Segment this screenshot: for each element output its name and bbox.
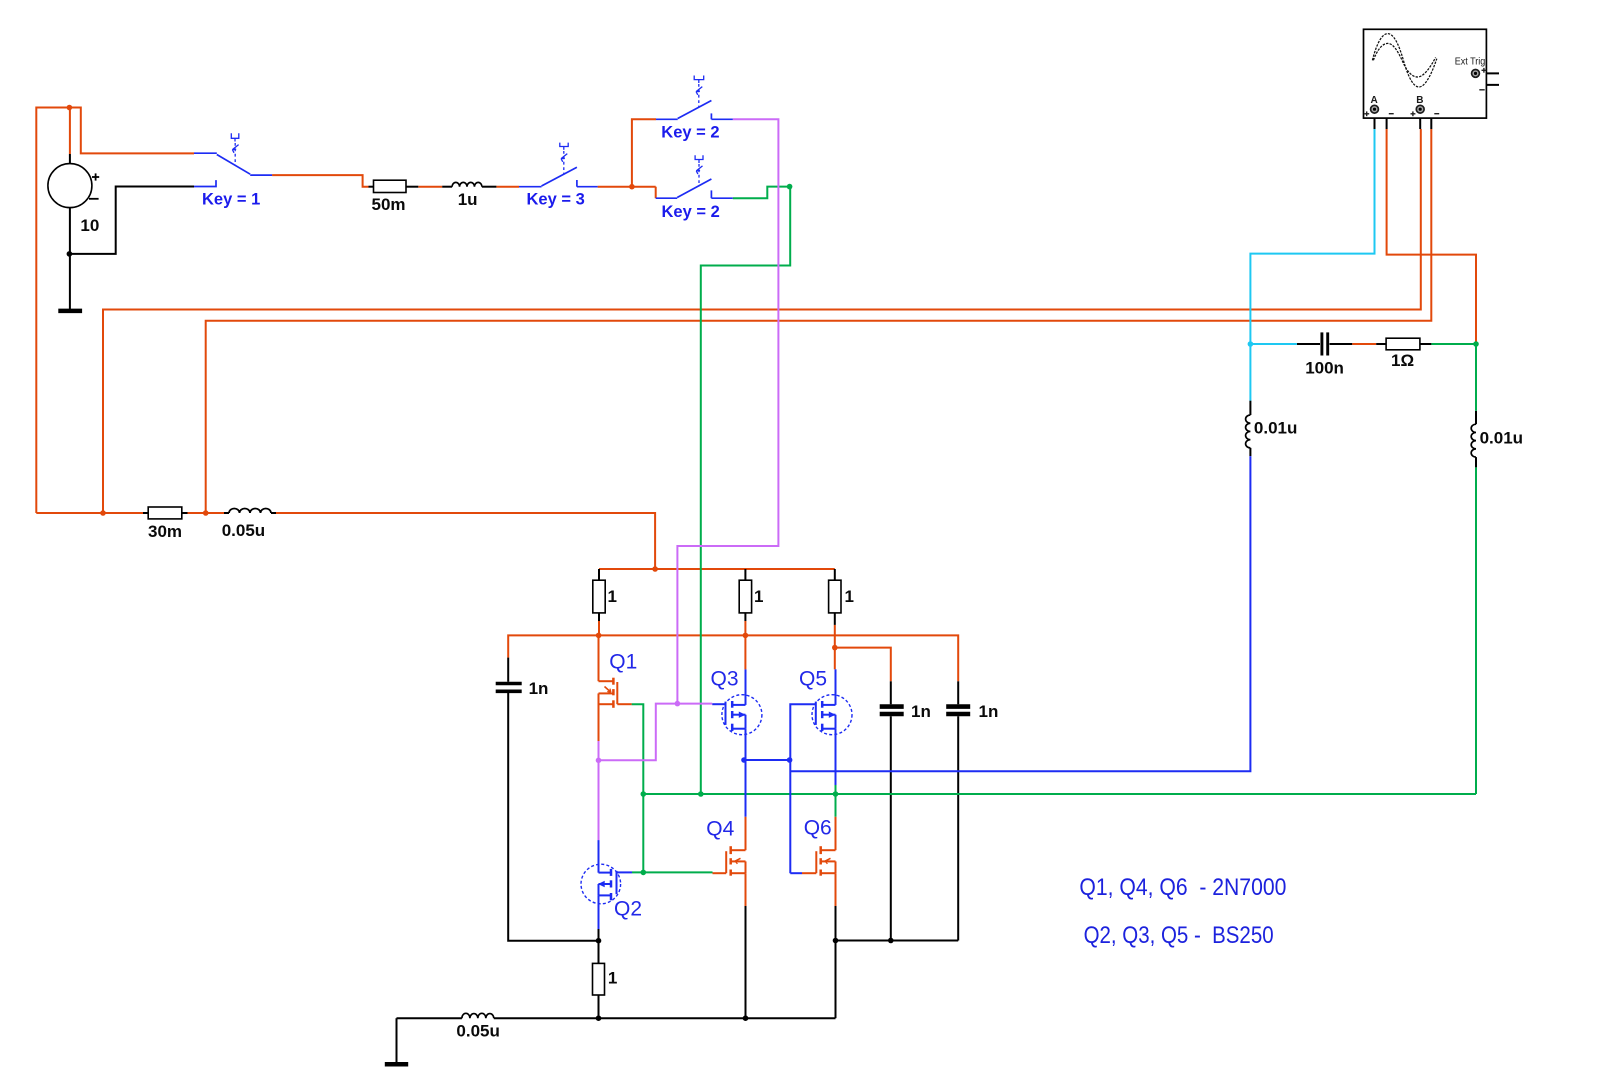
svg-text:10: 10 <box>80 216 99 235</box>
svg-text:A: A <box>1371 95 1378 106</box>
svg-text:1u: 1u <box>458 190 478 209</box>
svg-text:1: 1 <box>754 587 763 606</box>
svg-text:Key = 1: Key = 1 <box>202 191 260 209</box>
svg-text:30m: 30m <box>148 522 182 541</box>
svg-text:0.05u: 0.05u <box>222 521 265 540</box>
svg-text:1Ω: 1Ω <box>1391 351 1414 370</box>
svg-text:0.05u: 0.05u <box>456 1022 499 1041</box>
svg-text:Ext Trig: Ext Trig <box>1455 57 1486 68</box>
svg-text:Key = 2: Key = 2 <box>661 124 719 142</box>
svg-text:1n: 1n <box>979 702 999 721</box>
svg-text:50m: 50m <box>372 195 406 214</box>
svg-text:0.01u: 0.01u <box>1254 418 1297 437</box>
svg-text:Q1: Q1 <box>609 651 637 674</box>
svg-text:Key = 2: Key = 2 <box>662 203 720 221</box>
svg-text:Q1, Q4, Q6 - 2N7000: Q1, Q4, Q6 - 2N7000 <box>1079 874 1286 901</box>
svg-text:Q2: Q2 <box>614 898 642 921</box>
svg-text:1: 1 <box>845 587 854 606</box>
svg-text:Key = 3: Key = 3 <box>527 191 585 209</box>
svg-text:Q6: Q6 <box>804 817 832 840</box>
svg-text:B: B <box>1416 95 1423 106</box>
svg-text:Q2, Q3, Q5 - BS250: Q2, Q3, Q5 - BS250 <box>1084 922 1274 949</box>
svg-text:100n: 100n <box>1305 359 1344 378</box>
svg-text:Q4: Q4 <box>706 818 734 841</box>
svg-text:Q5: Q5 <box>799 667 827 690</box>
svg-text:0.01u: 0.01u <box>1480 429 1523 448</box>
svg-text:1: 1 <box>608 587 617 606</box>
svg-text:Q3: Q3 <box>711 667 739 690</box>
svg-text:1: 1 <box>608 969 617 988</box>
svg-text:1n: 1n <box>529 679 549 698</box>
svg-text:1n: 1n <box>911 702 931 721</box>
